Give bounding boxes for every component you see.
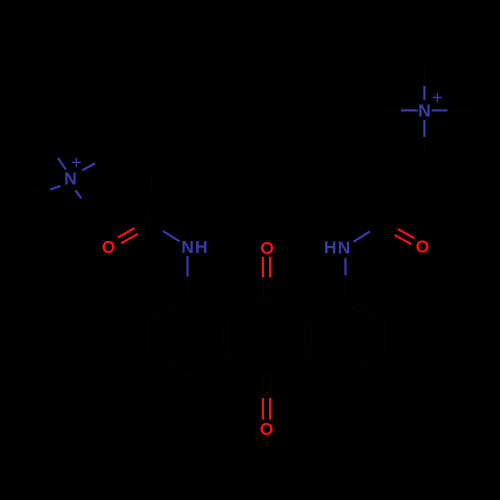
N2 methyl left blue half	[401, 109, 418, 111]
ring bond C7-C6	[384, 318, 386, 356]
N2 methyl right blue half	[432, 109, 448, 111]
label O right amide	[416, 236, 430, 256]
ring bond C3-C4	[148, 356, 188, 375]
N2-CH2 blue half	[423, 120, 425, 137]
label NH left	[181, 237, 207, 257]
ring bond C4a-C9a	[226, 318, 228, 356]
ring bond C10-C4a	[227, 356, 267, 375]
svg-text:O: O	[416, 236, 430, 256]
label HN right	[324, 237, 350, 257]
bond N2-CH3 c dark half	[434, 109, 470, 111]
bond CH2b-CO left	[148, 176, 152, 222]
svg-text:O: O	[102, 237, 116, 257]
NH-C8 blue half	[344, 258, 346, 275]
NH-C8 dark half	[344, 257, 346, 299]
ring bond C6-C5	[346, 356, 386, 375]
NH-C1 blue half	[186, 256, 188, 276]
amide C-N left blue half	[163, 231, 180, 242]
C9=O9 dark halves	[263, 258, 271, 299]
C=O left red line 1	[118, 228, 135, 237]
C10=O10 red line 1	[262, 398, 264, 420]
label N+ left	[64, 158, 81, 189]
N1 methyl b blue half	[50, 186, 60, 190]
ring bond C1-C2	[148, 299, 188, 318]
NH-C1 dark half	[186, 256, 188, 299]
bond CH2a-CH2b left	[111, 156, 152, 175]
bond N1-CH3 c dark half	[76, 186, 98, 215]
aromatic inner C5=C6	[349, 354, 378, 368]
aromatic inner C3=C4	[156, 354, 185, 368]
C=O left dark halves	[116, 219, 150, 244]
aromatic inner C8=C7	[349, 306, 378, 320]
svg-text:N: N	[64, 169, 77, 189]
bond N1-CH3 b dark half	[27, 182, 61, 194]
label O left amide	[102, 237, 116, 257]
svg-text:N: N	[181, 237, 194, 257]
amide C-N right blue half	[354, 231, 370, 241]
C9=O9 red line 1	[262, 257, 264, 278]
ring bond C9-C9a	[227, 299, 267, 318]
ring bond C8a-C8	[306, 299, 346, 318]
C=O right dark halves	[382, 221, 415, 244]
ring bond C5-C10a	[306, 356, 346, 375]
svg-text:O: O	[260, 419, 274, 439]
C=O left red line 2	[121, 234, 138, 243]
amide C-N right dark half	[352, 224, 384, 242]
bond CH2b-CO right	[383, 179, 385, 224]
bond N1-CH2 dark half	[79, 156, 111, 174]
ring bond C9-C8a	[267, 299, 307, 318]
ring bond C9a-C1	[188, 299, 228, 318]
N1-CH2 blue half	[83, 163, 96, 170]
bond N2-CH3 a dark half	[423, 64, 425, 101]
C=O right red line 1	[398, 229, 415, 238]
ring bond C4-C4a	[188, 356, 228, 375]
bond CH2a-CH2b right	[384, 156, 424, 179]
svg-text:N: N	[338, 237, 351, 257]
svg-text:O: O	[260, 238, 274, 258]
label N+ right	[418, 93, 442, 121]
svg-text:N: N	[418, 101, 431, 121]
bond N2-CH3 b dark half	[378, 109, 415, 111]
aromatic inner C1=C2	[156, 306, 185, 320]
C9=O9 red line 2	[269, 257, 271, 278]
N1 methyl a blue half	[58, 158, 66, 170]
N2 methyl up blue half	[423, 86, 425, 100]
amide C-N left dark half	[148, 222, 180, 242]
bond N1-CH3 a dark half	[45, 140, 65, 170]
svg-text:H: H	[324, 237, 337, 257]
label O9 ketone	[260, 238, 274, 258]
svg-text:H: H	[195, 237, 208, 257]
bond N2-CH2 dark half	[423, 120, 425, 156]
aromatic inner C4a=C9a	[221, 323, 223, 351]
ring bond C2-C3	[147, 318, 149, 356]
ring bond C8a-C10a	[305, 318, 307, 356]
aromatic inner C8a=C10a	[310, 323, 312, 351]
C10=O10 dark halves	[263, 375, 270, 418]
ring bond C10-C10a	[267, 356, 307, 375]
ring bond C8-C7	[346, 299, 386, 318]
C=O right red line 2	[395, 235, 412, 244]
N1 methyl c blue half	[75, 190, 81, 198]
label O10 ketone	[260, 419, 274, 439]
C10=O10 red line 2	[269, 398, 271, 420]
